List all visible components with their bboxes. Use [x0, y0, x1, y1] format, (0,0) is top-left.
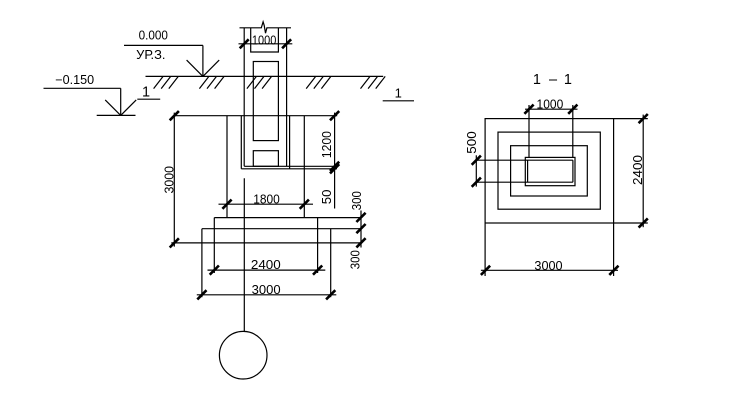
column inner box lower	[253, 151, 278, 167]
dimension 1200 and 50 right vertical	[320, 111, 339, 208]
plan dimension 3000 bottom	[481, 223, 619, 276]
dimension 3000 bottom	[197, 283, 336, 299]
dimension 1800	[219, 193, 314, 209]
slab bottom	[171, 242, 361, 244]
plan inner step rect	[511, 146, 588, 196]
column inner box upper	[253, 62, 278, 141]
break line at column top	[240, 22, 292, 33]
plan outer rect	[485, 119, 613, 223]
section mark 1 left	[137, 85, 160, 101]
plan dimension 1000	[524, 97, 577, 157]
section mark 1 right	[383, 86, 414, 101]
svg-text:500: 500	[465, 131, 479, 154]
svg-text:1200: 1200	[320, 131, 334, 158]
svg-text:50: 50	[320, 190, 334, 205]
pedestal walls	[227, 116, 304, 218]
svg-text:1: 1	[533, 72, 541, 88]
svg-text:1800: 1800	[253, 193, 280, 207]
plan socket outer rect	[525, 157, 575, 185]
dimension 300 300 right vertical	[349, 191, 366, 269]
axis bubble circle	[219, 331, 267, 379]
socket floor line	[241, 168, 337, 170]
plan socket inner lines	[476, 160, 573, 182]
svg-text:1: 1	[395, 86, 402, 101]
svg-text:300: 300	[349, 250, 363, 269]
plan dimension 2400 right	[614, 114, 648, 228]
svg-text:2400: 2400	[631, 155, 645, 185]
elevation mark -0.150	[44, 73, 137, 116]
svg-text:1000: 1000	[537, 97, 564, 111]
svg-text:−0.150: −0.150	[55, 73, 94, 87]
svg-text:300: 300	[350, 191, 364, 210]
plan middle rect	[498, 132, 600, 209]
svg-text:1: 1	[142, 85, 150, 101]
column head box	[251, 28, 279, 52]
svg-text:2400: 2400	[251, 258, 281, 272]
plan title 1 - 1	[533, 72, 572, 88]
plan dimension 500	[465, 131, 481, 187]
svg-text:3000: 3000	[534, 259, 562, 273]
ground hatching	[154, 76, 386, 88]
step2 top	[214, 217, 361, 219]
dimension 2400	[208, 258, 326, 275]
column bottom line	[244, 165, 337, 167]
dimension 1000 column	[239, 33, 293, 48]
pedestal top	[174, 115, 337, 117]
svg-text:1000: 1000	[252, 33, 276, 47]
ground line	[146, 75, 384, 77]
slab walls with 3000 extensions	[202, 229, 331, 298]
column axis line	[243, 178, 245, 331]
step2 walls with 2400 extensions	[214, 218, 317, 273]
step1 top	[202, 228, 361, 230]
svg-text:3000: 3000	[252, 283, 281, 297]
svg-text:1: 1	[564, 72, 572, 88]
dimension 3000 left vertical	[163, 111, 179, 247]
svg-text:УР.З.: УР.З.	[136, 48, 165, 62]
svg-text:–: –	[549, 72, 558, 88]
elevation mark 0.000	[124, 29, 219, 77]
socket walls	[241, 116, 289, 169]
svg-text:3000: 3000	[163, 166, 177, 194]
column outer edges	[244, 28, 286, 167]
svg-text:0.000: 0.000	[139, 29, 168, 43]
